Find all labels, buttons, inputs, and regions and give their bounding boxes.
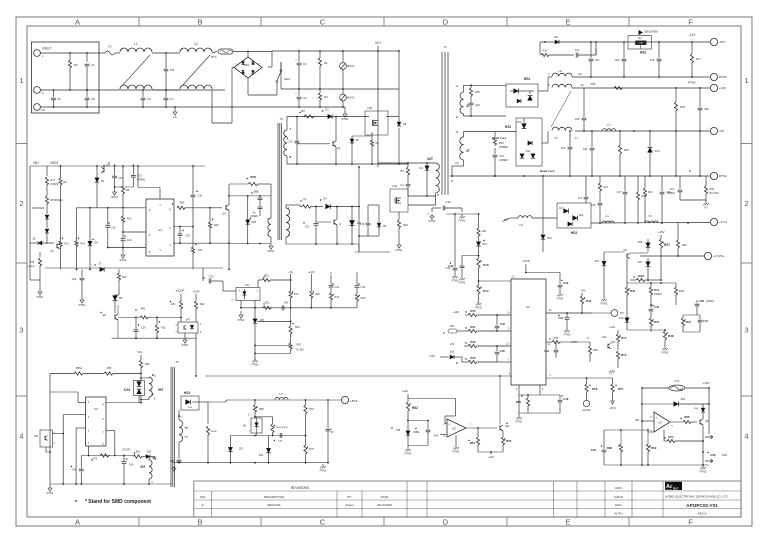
svg-text:R53: R53 — [136, 451, 141, 454]
fan top rail — [642, 387, 669, 389]
svg-text:L1: L1 — [134, 42, 138, 46]
svg-text:R32: R32 — [171, 303, 176, 306]
RTN2 rail — [572, 76, 710, 78]
svg-text:R70: R70 — [310, 448, 315, 451]
wire 7T to HS3 — [178, 410, 180, 420]
V0+ vertical rail — [377, 46, 379, 167]
svg-text:99T: 99T — [158, 388, 164, 392]
bottom rail y338 — [112, 337, 197, 339]
capacitor C46 — [559, 395, 561, 399]
svg-text:VB+: VB+ — [33, 161, 39, 165]
svg-text:B/: B/ — [456, 362, 459, 365]
resistor R41f — [140, 316, 149, 319]
svg-text:R78: R78 — [680, 105, 685, 109]
transistor Q11 — [499, 426, 501, 431]
svg-text:R37: R37 — [664, 243, 670, 247]
resistor R65 — [614, 86, 623, 89]
svg-text:7,8: 7,8 — [184, 435, 188, 439]
title block outline — [194, 481, 741, 517]
transistor Q6 — [56, 244, 58, 249]
svg-text:D: D — [443, 518, 449, 527]
svg-text:RTN2: RTN2 — [557, 296, 564, 300]
svg-text:-12V: -12V — [608, 371, 614, 375]
svg-text:BY: BY — [347, 495, 351, 499]
ground RTN2 U4 — [518, 395, 520, 413]
+5VS wire — [525, 264, 527, 273]
svg-text:R24: R24 — [604, 186, 609, 189]
svg-text:VR1: VR1 — [296, 343, 302, 347]
svg-text:C16: C16 — [111, 227, 116, 230]
diode D9o — [555, 40, 559, 44]
wire Q8 base — [316, 221, 331, 223]
ground under C57 — [173, 466, 175, 468]
svg-text:Q: Q — [339, 223, 341, 226]
resistor R25s — [619, 131, 621, 145]
svg-text:F1: F1 — [108, 45, 112, 49]
capacitor C39f — [559, 273, 561, 285]
T5 secondary bottom rail — [172, 462, 228, 464]
sense rail from RTN3 — [446, 213, 479, 215]
capacitor C42 — [496, 315, 498, 325]
choke L1 bottom winding — [120, 85, 152, 89]
svg-text:R28: R28 — [250, 175, 256, 179]
ground RTN2 fan — [702, 465, 704, 467]
snubber top rail — [287, 116, 369, 118]
svg-text:C10: C10 — [499, 154, 504, 158]
capacitor C45f — [496, 346, 498, 351]
svg-text:+5V: +5V — [601, 335, 606, 339]
svg-text:R14: R14 — [81, 243, 86, 246]
svg-text:R25: R25 — [624, 148, 629, 152]
svg-text:(OPEN): (OPEN) — [499, 158, 508, 162]
resistor R51 — [457, 330, 468, 332]
svg-text:C6: C6 — [91, 97, 95, 101]
svg-text:R45: R45 — [654, 320, 660, 324]
connector +5VS out — [341, 396, 348, 403]
diode M11 — [268, 436, 270, 449]
capacitor C51 — [408, 420, 428, 422]
ground FG — [174, 107, 176, 110]
capacitor C32 — [469, 102, 474, 104]
svg-text:-15V: -15V — [719, 40, 725, 44]
svg-text:-: - — [656, 425, 657, 429]
svg-text:RTN2: RTN2 — [252, 362, 259, 366]
svg-text:RTN2: RTN2 — [719, 75, 727, 79]
svg-text:C25: C25 — [575, 118, 580, 121]
svg-text:AUTH: AUTH — [614, 512, 622, 516]
svg-text:R50: R50 — [470, 309, 476, 313]
resistor R56A — [50, 373, 74, 375]
svg-text:DATE: DATE — [381, 495, 389, 499]
svg-text:RTN1: RTN1 — [238, 318, 245, 322]
U4 pin4 wire — [546, 377, 613, 379]
wire +5v column — [290, 274, 292, 291]
resistor R59 — [527, 395, 529, 398]
capacitor C24f — [281, 305, 283, 310]
opamp U3 — [447, 419, 466, 437]
svg-text:+3.3VS+: +3.3VS+ — [713, 254, 725, 258]
svg-text:RTN1: RTN1 — [79, 303, 86, 307]
U1 pin4 wire — [123, 231, 146, 233]
varistor MOV2 — [342, 51, 344, 62]
capacitor C56 — [699, 88, 701, 107]
svg-text:R55(OPEN): R55(OPEN) — [276, 427, 288, 429]
svg-text:C3: C3 — [91, 63, 95, 67]
svg-text:RTN1: RTN1 — [120, 258, 127, 262]
svg-text:C30: C30 — [561, 147, 566, 150]
svg-text:D25: D25 — [147, 451, 152, 454]
svg-text:R62: R62 — [412, 406, 418, 410]
resistor R4 — [319, 89, 321, 93]
svg-text:R74: R74 — [621, 336, 627, 340]
diode D1 — [328, 114, 332, 118]
standby mid row — [230, 435, 305, 437]
svg-text:C28: C28 — [650, 59, 655, 62]
diode D23 pair boxed — [140, 374, 142, 381]
ON/OFF circle — [583, 400, 589, 406]
wire 4T bottom — [463, 114, 465, 116]
resistor R57 — [612, 378, 614, 384]
svg-text:[5V-OFF]: [5V-OFF] — [710, 193, 720, 195]
U3 output wire — [466, 427, 497, 429]
svg-text:VCCP: VCCP — [176, 289, 185, 293]
capacitor C1 — [298, 51, 300, 62]
svg-text:VR3: VR3 — [434, 435, 439, 438]
svg-text:D8: D8 — [403, 122, 407, 126]
svg-text:+5v: +5v — [288, 270, 293, 274]
svg-text:R75: R75 — [554, 336, 559, 340]
ground RTN2 R48 — [664, 346, 666, 348]
diode D15a — [517, 99, 521, 103]
diode D5 — [89, 208, 91, 242]
resistor R29 — [356, 288, 358, 294]
U4 pin14 wire — [546, 312, 592, 314]
svg-text:+12V: +12V — [488, 455, 495, 459]
svg-text:D14: D14 — [655, 149, 660, 153]
capacitor C16p — [367, 218, 369, 222]
svg-text:L4: L4 — [605, 214, 609, 218]
svg-text:30T: 30T — [140, 465, 146, 469]
diode D13a — [528, 141, 532, 145]
capacitor C16u — [107, 208, 109, 225]
svg-text:D9: D9 — [554, 35, 558, 39]
svg-text:+12V: +12V — [609, 325, 616, 329]
diode pair D12b — [520, 154, 524, 158]
choke L6 diagonal — [551, 91, 571, 127]
svg-text:C56: C56 — [704, 108, 709, 111]
W7 pin2 wire down — [195, 333, 197, 376]
left rail fan — [641, 388, 643, 465]
diode W16 — [626, 305, 628, 318]
resistor R78 — [675, 88, 677, 102]
wire after L1 bottom — [152, 89, 180, 91]
resistor R34 — [290, 321, 292, 326]
diode D25 — [143, 456, 146, 458]
connector RTN3 — [710, 172, 717, 179]
svg-text:RTN2: RTN2 — [475, 305, 482, 309]
rectifier box HS2 3V3 — [557, 203, 591, 228]
resistor R63 — [502, 431, 504, 437]
svg-text:+5VS: +5VS — [193, 290, 200, 294]
svg-text:HS2: HS2 — [524, 77, 531, 81]
svg-text:8,8: 8,8 — [578, 73, 582, 76]
svg-text:RTN2: RTN2 — [688, 81, 696, 85]
photocoupler PC — [611, 310, 618, 317]
svg-text:C58: C58 — [699, 299, 704, 303]
svg-text:T5: T5 — [175, 360, 179, 364]
resistor RT6 — [45, 196, 48, 205]
svg-text:RTN2: RTN2 — [320, 468, 327, 472]
wire +5v col to w6 row — [290, 308, 292, 322]
svg-text:+12V: +12V — [453, 310, 460, 314]
choke L6 winding2 — [552, 84, 572, 87]
module R2 box — [628, 36, 652, 50]
ground RTN1 T3 — [270, 244, 272, 246]
resistor R71 — [663, 430, 665, 441]
capacitor C13 — [296, 117, 298, 141]
svg-text:C04: C04 — [129, 464, 134, 467]
svg-text:RTN1: RTN1 — [47, 491, 54, 495]
svg-text:SW1: SW1 — [284, 77, 291, 81]
wire zd8 to R56 — [462, 361, 464, 363]
svg-text:D23: D23 — [124, 388, 130, 392]
svg-text:4,7: 4,7 — [574, 137, 578, 140]
svg-text:-12V: -12V — [689, 33, 697, 37]
svg-text:C48: C48 — [448, 264, 453, 268]
svg-text:ZD: ZD — [32, 239, 35, 241]
wire rect row2 out — [542, 142, 548, 144]
svg-text:R54: R54 — [470, 441, 476, 445]
ground RTN1 R26 — [398, 243, 400, 245]
svg-text:C45: C45 — [500, 349, 505, 353]
transistor Q4 — [103, 168, 105, 173]
svg-text:A: A — [330, 271, 332, 275]
svg-text:C14: C14 — [198, 195, 203, 198]
PTC thermistor — [218, 49, 233, 54]
wire 30T top — [148, 458, 150, 460]
svg-text:ZD8: ZD8 — [450, 352, 455, 354]
ground RTN2 C30m — [454, 274, 456, 276]
resistor R32 — [180, 294, 182, 301]
svg-text:RTN2: RTN2 — [662, 350, 669, 354]
svg-text:D21: D21 — [595, 260, 600, 263]
diode D12a — [523, 118, 525, 123]
transistor Q8b — [114, 315, 116, 320]
svg-text:R6B: R6B — [259, 408, 264, 411]
svg-text:C19: C19 — [127, 239, 132, 242]
resistor R21 — [477, 228, 480, 237]
svg-text:U5: U5 — [658, 421, 662, 425]
diode D49 label — [274, 440, 275, 441]
resistor R62m — [407, 394, 409, 402]
primary positive bus — [268, 66, 272, 68]
svg-text:+: + — [448, 422, 450, 426]
svg-text:A: A — [75, 18, 80, 27]
resistor R41 — [650, 283, 652, 287]
resistor R13 — [539, 42, 541, 55]
svg-text:C37: C37 — [617, 191, 622, 194]
svg-text:RTN2: RTN2 — [405, 451, 412, 455]
resistor R33s — [705, 176, 707, 186]
primary lower rail — [355, 251, 390, 253]
MOSFET Q1 box HS1 — [365, 111, 388, 135]
MOSFET Q3 box — [390, 189, 408, 212]
opto H6 bottom vertical — [254, 301, 256, 319]
diode D8k — [114, 295, 116, 296]
svg-text:D19: D19 — [547, 237, 552, 240]
diode W6 — [253, 319, 257, 323]
ground RTN1 bottom — [49, 484, 51, 486]
svg-text:C2: C2 — [303, 96, 307, 100]
svg-text:Q11: Q11 — [505, 425, 510, 428]
resistor R25f — [156, 317, 158, 325]
resistor R39 — [630, 279, 636, 281]
svg-text:C42: C42 — [500, 322, 505, 326]
U2 pin3 wire — [63, 414, 85, 416]
zener ZD2 — [352, 135, 372, 137]
svg-text:R1: R1 — [324, 61, 328, 65]
diode D37 — [647, 258, 649, 262]
svg-text:R39: R39 — [638, 274, 644, 278]
ground RTN1 H6 — [240, 301, 242, 308]
inlet terminal L — [34, 50, 41, 57]
T3 winding lower-left — [270, 184, 272, 218]
svg-text:C: C — [320, 18, 326, 27]
svg-text:RTN1: RTN1 — [429, 219, 436, 223]
U1 pin3 wire — [173, 226, 193, 228]
fuse F1 — [105, 51, 115, 55]
svg-text:+: + — [655, 416, 657, 420]
diode D14 — [649, 131, 651, 147]
resistor R16 — [118, 269, 120, 273]
svg-text:W5: W5 — [34, 435, 38, 438]
ground RTN1 C20 — [81, 295, 83, 298]
svg-text:FG: FG — [173, 115, 177, 119]
optocoupler W5 box — [40, 430, 52, 447]
resistor R60 — [254, 400, 256, 405]
U3 pin3 stub — [440, 433, 447, 435]
capacitor C28 — [658, 42, 660, 58]
svg-text:1: 1 — [19, 76, 23, 85]
capacitor C27 — [590, 42, 592, 58]
resistor R28 — [248, 182, 259, 185]
diode D19 — [542, 176, 544, 234]
connector +13V — [710, 84, 717, 91]
svg-text:V0+: V0+ — [375, 41, 381, 45]
svg-text:RTN1: RTN1 — [396, 248, 403, 252]
capacitor C21 — [330, 275, 332, 285]
svg-text:(OPEN): (OPEN) — [250, 216, 258, 218]
svg-text:RTN1: RTN1 — [342, 117, 349, 121]
svg-text:Q9: Q9 — [623, 248, 627, 252]
resistor R67 — [207, 420, 209, 424]
resistor R24 — [599, 176, 601, 183]
svg-text:F: F — [688, 18, 693, 27]
svg-text:C13: C13 — [288, 140, 293, 144]
connector +8V — [710, 127, 717, 134]
svg-text:R44: R44 — [483, 289, 489, 293]
diode D21 — [603, 252, 605, 262]
svg-text:D36: D36 — [638, 241, 643, 244]
wire N to bridge left — [211, 90, 213, 123]
svg-text:VR2: VR2 — [450, 325, 455, 328]
resistor R53f — [561, 341, 568, 343]
svg-text:2: 2 — [19, 199, 23, 208]
svg-text:C38: C38 — [666, 191, 671, 194]
capacitor C29 — [591, 131, 593, 147]
resistor RT5 — [39, 252, 41, 257]
svg-text:INLET: INLET — [42, 47, 51, 51]
transistor Q16 — [699, 420, 701, 425]
svg-text:R0247: R0247 — [211, 431, 218, 433]
diode D16b — [573, 216, 578, 221]
svg-text:R26: R26 — [403, 223, 408, 227]
rectifier box HS2 row1 — [506, 84, 538, 107]
svg-text:VCCP: VCCP — [122, 448, 130, 452]
wire bridge bottom to SW1 — [247, 78, 249, 95]
svg-text:+15V: +15V — [657, 230, 664, 234]
ground RTN2 D21 — [603, 297, 605, 299]
wire 34T bottom to Q3 — [435, 193, 437, 205]
capacitor C8 — [165, 53, 167, 68]
ground RTN1 bridge — [344, 112, 346, 114]
VR1 wiper wires — [255, 345, 291, 347]
svg-text:1: 1 — [744, 76, 748, 85]
svg-text:Bel: Bel — [673, 486, 678, 490]
column tick marks bottom — [138, 517, 140, 526]
rail y195 — [229, 195, 271, 197]
svg-text:D1: D1 — [325, 108, 329, 112]
svg-text:DESCRIPTION: DESCRIPTION — [264, 495, 285, 499]
svg-text:D37: D37 — [638, 261, 643, 264]
U2 pin4 wire — [78, 402, 86, 404]
svg-text:C20: C20 — [72, 278, 77, 281]
svg-text:HS2: HS2 — [505, 125, 511, 129]
svg-text:R33: R33 — [710, 188, 715, 191]
svg-text:R7: R7 — [303, 198, 307, 202]
svg-text:FAN: FAN — [722, 453, 727, 457]
wire 3T bottom — [463, 160, 465, 166]
feedback rail right — [291, 307, 357, 309]
wire FG line — [40, 106, 296, 108]
resistor R53b — [133, 455, 143, 458]
wire Q3 source — [398, 212, 400, 218]
resistor R37 — [660, 235, 662, 239]
resistor R8 — [122, 166, 124, 186]
ground RTN1 left — [39, 280, 41, 290]
rectifier HS3 box — [181, 396, 199, 410]
standby top rail — [230, 399, 341, 401]
svg-text:C5: C5 — [57, 97, 61, 101]
svg-text:U2: U2 — [94, 407, 98, 411]
resistor R17 — [289, 291, 292, 299]
capacitor C14 — [192, 166, 194, 194]
second vertical rail — [398, 51, 400, 122]
choke L6 winding1 — [552, 73, 572, 76]
U1 pin7 wire — [159, 187, 161, 199]
capacitor C2 — [298, 89, 300, 96]
capacitor C2 OPEN — [679, 176, 681, 189]
svg-text:DRN: DRN — [615, 486, 622, 490]
svg-text:+: + — [295, 91, 297, 95]
svg-text:C23: C23 — [209, 275, 214, 279]
svg-text:HS2: HS2 — [571, 231, 578, 235]
capacitor C20 — [81, 269, 83, 277]
svg-text:N: N — [41, 91, 43, 95]
resistor R1 — [319, 51, 321, 58]
right rail fan — [708, 388, 710, 434]
diode D4 — [426, 163, 428, 166]
